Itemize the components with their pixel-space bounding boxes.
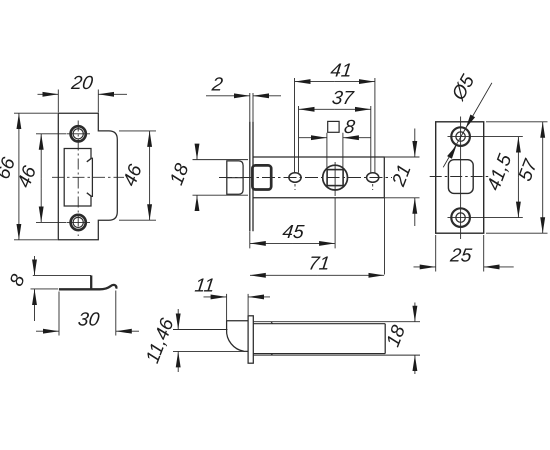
dim 57 line xyxy=(542,122,544,178)
spindle circle xyxy=(323,165,348,190)
oval hole left xyxy=(289,173,301,183)
screw centerlines / 41,5 ext xyxy=(448,137,523,218)
dim 18 bottom arrows xyxy=(414,303,416,322)
dim 8 ext line xyxy=(31,288,59,290)
faceplate edge-on xyxy=(250,122,253,232)
svg-text:37: 37 xyxy=(331,88,356,109)
dim 21 arrows xyxy=(414,129,416,157)
svg-text:8: 8 xyxy=(343,117,357,138)
faceplate hole h centerline xyxy=(430,176,491,178)
dim 46 left ext lines xyxy=(36,134,66,223)
dim 18 left arrows xyxy=(196,144,198,159)
svg-text:45: 45 xyxy=(281,222,305,243)
bolt bottom view xyxy=(227,321,249,352)
bar right edge xyxy=(384,324,386,354)
dim 11,46 arrows xyxy=(177,309,179,329)
spindle vertical centerline xyxy=(334,162,336,196)
side plate bent tab xyxy=(90,275,92,288)
screw hole bottom outer xyxy=(71,215,86,230)
dim 20 arrow left xyxy=(38,93,59,95)
svg-text:Ø5: Ø5 xyxy=(448,71,480,105)
svg-text:30: 30 xyxy=(77,310,101,331)
svg-text:21: 21 xyxy=(388,162,416,190)
dim 41,5 line xyxy=(517,137,519,177)
screw hole top inner xyxy=(73,129,83,139)
dim 20 ext lines xyxy=(58,90,98,113)
faceplate outline xyxy=(436,122,484,233)
dia5 arrowhead upper xyxy=(466,115,475,129)
svg-text:46: 46 xyxy=(119,161,146,189)
dia5 leader xyxy=(443,83,492,168)
dim 11,46 ext lines xyxy=(173,330,245,352)
oval stubs xyxy=(295,184,373,190)
faceplate screw top inner xyxy=(456,132,465,141)
svg-text:8: 8 xyxy=(6,271,30,289)
svg-text:2: 2 xyxy=(210,75,225,96)
latch body outline xyxy=(253,157,384,198)
side plate body edge with lip xyxy=(59,285,117,289)
bolt mid line xyxy=(227,177,243,179)
faceplate screw bottom outer xyxy=(451,208,470,227)
dim 71 line xyxy=(250,274,317,276)
dim 8 arrows xyxy=(34,256,36,275)
screw hole bottom inner xyxy=(73,217,83,227)
dim 25 ext lines xyxy=(436,235,484,272)
vertical centerline strike xyxy=(77,121,79,237)
faceplate bottom view xyxy=(248,316,253,363)
svg-text:57: 57 xyxy=(515,156,543,185)
faceplate vertical centerline xyxy=(460,117,462,240)
svg-text:11: 11 xyxy=(194,276,216,297)
faceplate screw bottom inner xyxy=(456,213,465,222)
dim 45 line xyxy=(250,242,292,244)
dim 57 ext lines xyxy=(486,122,548,233)
svg-text:20: 20 xyxy=(69,73,94,94)
bolt head xyxy=(227,161,243,194)
faceplate latch hole xyxy=(448,160,473,194)
dim 41 ext lines xyxy=(295,78,375,173)
dim 46 left line xyxy=(40,134,42,178)
svg-text:18: 18 xyxy=(166,160,193,188)
dim 20 arrow right xyxy=(98,93,127,95)
dim 71 ext line xyxy=(384,198,386,275)
dim 30 arrows xyxy=(36,330,59,332)
dim 30 ext lines xyxy=(59,291,116,336)
oval hole right xyxy=(367,173,379,183)
dim 25 arrows xyxy=(414,266,436,268)
screw hole top outer xyxy=(71,126,86,141)
step tick top xyxy=(87,158,91,161)
dim 37 ext lines xyxy=(299,106,371,173)
horizontal centerline strike xyxy=(52,176,124,178)
bar inner lines xyxy=(253,324,385,354)
svg-text:71: 71 xyxy=(307,254,331,275)
dim 11 arrows xyxy=(204,296,227,298)
bar ticks xyxy=(271,322,272,355)
dim 8 square arrows xyxy=(299,137,327,139)
dim 11 ext lines xyxy=(227,294,249,320)
strike latch hole xyxy=(64,149,92,207)
dim 66 line xyxy=(18,113,20,176)
dim 8 square ext lines xyxy=(327,133,343,169)
faceplate screw top outer xyxy=(451,127,470,146)
svg-text:11,46: 11,46 xyxy=(142,315,178,366)
svg-text:41,5: 41,5 xyxy=(483,151,516,193)
bar outer lines xyxy=(253,322,420,355)
bolt guide bold rect xyxy=(252,165,271,189)
step tick bottom xyxy=(87,193,91,196)
strike plate outline xyxy=(58,113,117,240)
dim 41 line xyxy=(295,81,335,83)
dim 45 ext lines xyxy=(250,198,335,248)
bolt outer lines xyxy=(193,160,249,196)
spindle square xyxy=(327,170,343,186)
main centerline xyxy=(219,177,392,179)
dim 66 ext lines xyxy=(14,113,58,240)
dia5 arrowhead lower xyxy=(447,145,456,159)
square symbol xyxy=(328,121,339,132)
svg-text:25: 25 xyxy=(448,246,473,267)
dim 37 line xyxy=(299,108,335,110)
dim 2 arrows xyxy=(206,95,250,97)
faceplate edge-on ext xyxy=(250,93,253,122)
dim 21 ext lines xyxy=(385,157,420,198)
svg-text:41: 41 xyxy=(329,61,353,82)
svg-text:18: 18 xyxy=(383,322,410,350)
side plate thin top line xyxy=(33,274,91,276)
dim 46 right line xyxy=(149,131,151,175)
dim 46 right ext lines xyxy=(119,131,156,220)
